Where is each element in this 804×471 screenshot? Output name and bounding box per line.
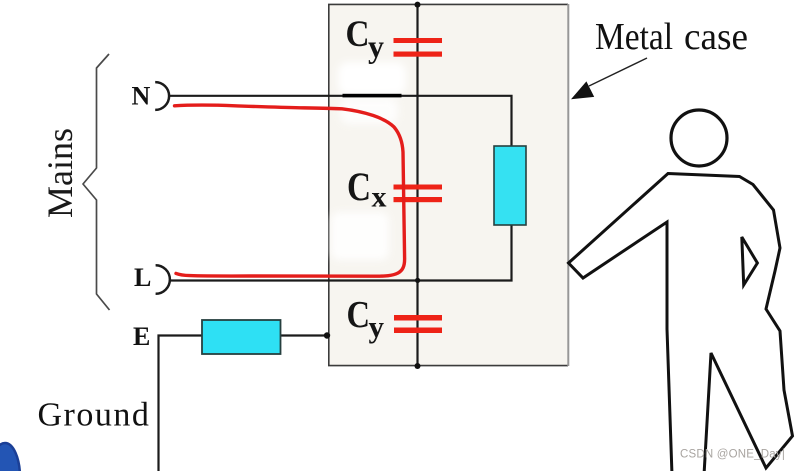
capacitor CY2 plates bbox=[394, 315, 442, 333]
resistor ground series (cyan) bbox=[202, 320, 281, 354]
metal case enclosure bbox=[328, 4, 568, 366]
label CX bbox=[347, 164, 387, 214]
label CY1 bbox=[346, 14, 385, 64]
person head bbox=[671, 110, 727, 166]
svg-text:CSDN @ONE_Day|: CSDN @ONE_Day| bbox=[680, 449, 785, 461]
svg-text:y: y bbox=[369, 309, 385, 344]
capacitor CX plates bbox=[394, 185, 443, 203]
svg-text:C: C bbox=[346, 14, 370, 55]
svg-text:y: y bbox=[368, 28, 384, 64]
svg-text:E: E bbox=[133, 322, 150, 351]
person body outline bbox=[569, 174, 793, 471]
node L junction bbox=[415, 278, 420, 283]
wire L line bbox=[170, 225, 512, 281]
svg-text:Metal: Metal bbox=[595, 16, 673, 58]
eraser patch middle bbox=[331, 212, 389, 260]
node E to case bbox=[324, 332, 330, 338]
arrowhead bbox=[571, 81, 594, 99]
arrow line to case bbox=[589, 58, 647, 86]
resistor load (cyan) bbox=[494, 146, 526, 225]
svg-text:L: L bbox=[134, 263, 151, 292]
person hand notch bbox=[742, 237, 758, 285]
svg-text:Mains: Mains bbox=[40, 128, 80, 218]
red current loop annotation bbox=[175, 105, 405, 276]
svg-text:x: x bbox=[372, 181, 387, 214]
node top of case bbox=[415, 2, 421, 8]
metal case right edge bbox=[567, 4, 569, 366]
svg-text:Ground: Ground bbox=[38, 397, 151, 434]
wire E branch bbox=[159, 336, 327, 471]
svg-text:C: C bbox=[347, 294, 371, 336]
svg-text:case: case bbox=[684, 16, 748, 58]
svg-text:N: N bbox=[132, 82, 151, 111]
mains brace bbox=[83, 54, 110, 310]
black marker stroke over N wire bbox=[343, 94, 402, 98]
capacitor CY1 plates bbox=[394, 38, 443, 57]
eraser patch upper bbox=[338, 62, 406, 95]
label CY2 bbox=[347, 294, 385, 344]
terminal N arc bbox=[155, 82, 169, 110]
node bottom of case bbox=[415, 363, 421, 369]
svg-text:C: C bbox=[347, 164, 371, 209]
wire N line bbox=[169, 96, 512, 146]
blue corner logo bbox=[0, 443, 20, 471]
terminal L arc bbox=[156, 265, 170, 294]
wire main vertical bbox=[416, 4, 418, 366]
eraser patch bend bbox=[340, 98, 398, 124]
